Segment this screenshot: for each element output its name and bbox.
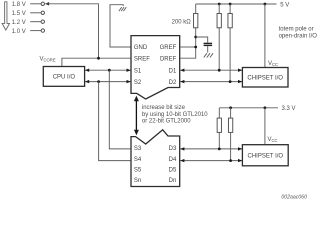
- wire Vcc upper: [264, 4, 266, 68]
- wire D4: [180, 160, 242, 162]
- capacitor branch wire: [196, 37, 208, 43]
- svg-text:or 22-bit GTL2000: or 22-bit GTL2000: [142, 119, 191, 125]
- IC GTL2000 lower body: [131, 130, 180, 187]
- wire S2: [85, 81, 131, 83]
- terminal 1.5V: [41, 11, 44, 14]
- wire GREF: [180, 46, 196, 48]
- junction D1/R1: [218, 69, 221, 72]
- junction D3/R3: [218, 148, 221, 151]
- CHIPSET I/O box (lower): [242, 145, 288, 166]
- svg-text:VCC: VCC: [268, 61, 278, 67]
- svg-text:200 kΩ: 200 kΩ: [172, 20, 192, 26]
- junction 5V/R2: [229, 3, 232, 6]
- wire 200k top stub: [195, 4, 197, 14]
- wire 1.8V stub: [30, 3, 41, 5]
- 5 V rail: [196, 3, 277, 5]
- junction D2/R2: [229, 80, 232, 83]
- svg-text:VCC: VCC: [268, 137, 278, 143]
- wire D1: [180, 69, 242, 71]
- arrowhead D2 left: [180, 80, 184, 83]
- svg-text:3.3 V: 3.3 V: [282, 106, 296, 112]
- arrowhead into 1.8V terminal: [45, 2, 49, 5]
- svg-text:totem pole or: totem pole or: [279, 27, 314, 33]
- wire S1 to S3: [109, 70, 130, 149]
- svg-text:DREF: DREF: [160, 56, 177, 62]
- arrowhead D4 left: [180, 159, 184, 162]
- wire Vcc lower: [264, 108, 266, 145]
- pull-up resistor D1: [218, 4, 220, 14]
- arrowhead D3 right: [238, 147, 242, 150]
- CHIPSET I/O box (upper): [242, 68, 288, 88]
- svg-text:VCORE: VCORE: [40, 57, 56, 63]
- svg-text:open-drain I/O: open-drain I/O: [279, 33, 318, 39]
- junction S2 branch: [97, 80, 100, 83]
- arrowhead D1 right: [238, 69, 242, 72]
- svg-text:5 V: 5 V: [280, 2, 289, 8]
- svg-text:D3: D3: [169, 146, 177, 152]
- arrowhead S1 right: [127, 69, 131, 72]
- arrowhead D4 right: [238, 159, 242, 162]
- junction GREF tap: [194, 46, 197, 49]
- junction 3.3V/R4: [229, 106, 232, 109]
- junction 5V/R1: [218, 3, 221, 6]
- 3.3 V rail: [219, 107, 278, 109]
- svg-text:S5: S5: [134, 167, 142, 173]
- svg-text:S2: S2: [134, 80, 142, 86]
- arrowhead S2 right: [127, 80, 131, 83]
- wire 1.2V stub: [30, 21, 41, 23]
- svg-text:CHIPSET I/O: CHIPSET I/O: [247, 76, 283, 82]
- pull-up resistor D3: [218, 108, 220, 118]
- IC GTL2000 upper body: [131, 36, 180, 99]
- terminal 1.0V: [41, 29, 44, 32]
- svg-text:CHIPSET I/O: CHIPSET I/O: [248, 154, 284, 160]
- pull-up resistor D2: [229, 4, 231, 14]
- ground (capacitor): [204, 46, 213, 57]
- wire 1.8V to SREF net: [46, 4, 99, 58]
- svg-text:D5: D5: [169, 167, 177, 173]
- svg-text:S4: S4: [134, 157, 142, 163]
- junction 3.3V/Vcc: [264, 106, 267, 109]
- wire S1: [85, 69, 131, 71]
- svg-text:Sn: Sn: [134, 178, 141, 184]
- junction capacitor tap: [194, 36, 197, 39]
- svg-text:D1: D1: [169, 68, 177, 74]
- svg-text:1.5 V: 1.5 V: [12, 11, 26, 17]
- bit-size stretch arrow (double headed): [134, 96, 139, 136]
- junction 5V/Vcc: [264, 3, 267, 6]
- svg-text:1.8 V: 1.8 V: [12, 2, 26, 8]
- svg-text:increase bit size: increase bit size: [142, 105, 186, 111]
- terminal 1.8V: [41, 2, 44, 5]
- supply range arrow (hollow down arrow): [2, 2, 9, 30]
- arrowhead D1 left: [180, 69, 184, 72]
- junction S1 branch: [108, 69, 111, 72]
- svg-text:1.2 V: 1.2 V: [12, 20, 26, 26]
- junction SREF / 1.8V: [97, 57, 100, 60]
- svg-text:D4: D4: [169, 157, 177, 163]
- wire S2 to S4: [99, 82, 131, 161]
- junction D4/R4: [229, 159, 232, 162]
- arrowhead D2 right: [238, 80, 242, 83]
- terminal 1.2V: [41, 20, 44, 23]
- resistor 200 kOhm: [194, 14, 198, 28]
- wire 1.0V stub: [30, 30, 41, 32]
- svg-text:S3: S3: [134, 146, 142, 152]
- wire D3: [180, 148, 242, 150]
- svg-text:SREF: SREF: [134, 56, 150, 62]
- arrowhead S2 left: [85, 80, 89, 83]
- wire D2: [180, 81, 242, 83]
- wire 1.5V stub: [30, 12, 41, 14]
- arrowhead D3 left: [180, 147, 184, 150]
- arrowhead S1 left: [85, 69, 89, 72]
- capacitor (filter): [204, 43, 213, 45]
- svg-text:D2: D2: [169, 80, 177, 86]
- pull-up resistor D4: [230, 108, 232, 118]
- CPU I/O box: [43, 67, 84, 87]
- ground (top, for GND pin): [110, 5, 131, 47]
- svg-text:Dn: Dn: [169, 178, 177, 184]
- svg-text:002aac060: 002aac060: [281, 195, 307, 201]
- svg-text:S1: S1: [134, 68, 142, 74]
- svg-text:GREF: GREF: [160, 45, 177, 51]
- svg-text:GND: GND: [134, 45, 148, 51]
- svg-text:1.0 V: 1.0 V: [12, 29, 26, 35]
- svg-text:by using 10-bit GTL2010: by using 10-bit GTL2010: [142, 112, 208, 118]
- wire DREF: [180, 28, 196, 58]
- wire VCORE to SREF: [62, 58, 131, 66]
- svg-text:CPU I/O: CPU I/O: [53, 75, 76, 81]
